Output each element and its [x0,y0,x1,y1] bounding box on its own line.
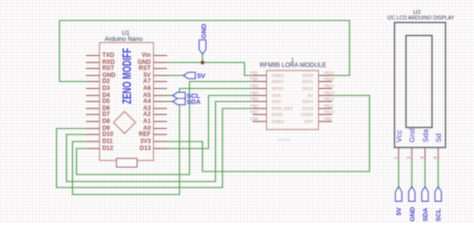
svg-text:MOSI: MOSI [272,86,284,91]
svg-text:P$9: P$9 [324,116,333,121]
svg-text:A2: A2 [143,112,151,118]
svg-text:2: 2 [406,156,411,159]
svg-text:P$12: P$12 [324,96,335,101]
svg-text:GND1: GND1 [272,73,285,78]
svg-text:SCK: SCK [272,93,281,98]
svg-text:A4: A4 [143,99,151,105]
svg-text:DIO1: DIO1 [302,79,313,84]
svg-text:A1: A1 [143,119,151,125]
svg-text:RST: RST [139,66,151,72]
svg-text:P$10: P$10 [324,109,335,114]
svg-text:Arduino Nano: Arduino Nano [105,36,143,43]
svg-text:P$7: P$7 [250,109,259,114]
svg-text:Sda: Sda [421,128,430,142]
svg-text:3V: 3V [307,93,313,98]
svg-text:P$11: P$11 [324,103,335,108]
svg-text:RST: RST [102,66,114,72]
svg-text:P$16: P$16 [324,70,335,75]
svg-text:D7: D7 [102,112,110,118]
svg-text:D13: D13 [140,146,152,152]
svg-text:GND: GND [201,24,208,39]
svg-text:SDA: SDA [187,99,201,106]
svg-text:GND2: GND2 [272,119,285,124]
svg-text:A7: A7 [143,79,151,85]
svg-text:P$1: P$1 [250,70,259,75]
svg-text:3V3: 3V3 [140,139,151,145]
svg-text:DIO2: DIO2 [302,86,313,91]
svg-text:D11: D11 [102,139,113,145]
svg-text:D3: D3 [102,86,110,92]
svg-text:DIO5: DIO5 [272,112,283,117]
svg-text:NSS: NSS [272,99,281,104]
svg-text:Vcc: Vcc [394,130,403,143]
svg-text:D8: D8 [102,119,110,125]
svg-text:DIO4: DIO4 [302,99,313,104]
svg-text:RFM95 LORA MODULE: RFM95 LORA MODULE [260,62,327,69]
svg-text:SCL: SCL [436,208,443,221]
svg-text:A6: A6 [143,86,151,92]
svg-text:P$15: P$15 [324,76,335,81]
svg-text:SDA: SDA [423,207,430,221]
svg-text:D10: D10 [102,132,114,138]
svg-text:RFM_RST: RFM_RST [272,106,294,111]
svg-text:MISO: MISO [272,79,284,84]
svg-text:P$5: P$5 [250,96,259,101]
svg-text:DIO3: DIO3 [302,106,313,111]
svg-text:REF: REF [139,132,151,138]
svg-text:Sd: Sd [434,133,443,142]
svg-text:I2C LCD ARDUINO DISPLAY: I2C LCD ARDUINO DISPLAY [387,15,454,21]
svg-text:ANT: ANT [304,119,313,124]
svg-text:P$3: P$3 [250,83,259,88]
svg-text:1: 1 [393,156,398,159]
svg-text:GND: GND [409,207,416,222]
svg-text:P$4: P$4 [250,90,259,95]
svg-text:5V: 5V [197,73,206,80]
svg-text:Vin: Vin [142,53,152,59]
svg-text:P$14: P$14 [324,83,335,88]
svg-text:D12: D12 [102,146,114,152]
svg-text:ZENO MODIFF: ZENO MODIFF [120,48,134,104]
svg-text:915MHZ: 915MHZ [278,138,290,142]
svg-text:3: 3 [419,156,424,159]
svg-text:P$13: P$13 [324,90,335,95]
svg-text:TXD: TXD [102,53,115,59]
svg-text:4: 4 [433,156,438,159]
svg-text:P$2: P$2 [250,76,259,81]
svg-text:5V: 5V [396,207,403,216]
svg-text:GND3: GND3 [300,112,313,117]
svg-text:DIO0: DIO0 [302,73,313,78]
svg-text:Gnd: Gnd [408,128,417,142]
svg-text:P$8: P$8 [250,116,259,121]
svg-text:D2: D2 [102,79,110,85]
svg-text:D5: D5 [102,99,110,105]
svg-text:P$6: P$6 [250,103,259,108]
